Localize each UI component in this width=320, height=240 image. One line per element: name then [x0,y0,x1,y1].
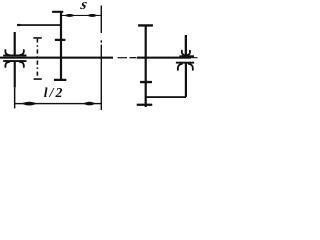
right bearing bottom stem (down to lower shaft) [185,63,187,97]
svg-text:l/2: l/2 [44,85,65,100]
svg-text:s: s [78,0,89,13]
phantom gear dash-dot stem [37,39,39,76]
left bearing top stem [14,32,16,56]
left bearing bottom bar [3,60,26,62]
left bearing bottom hooks [5,62,24,67]
dimension s: left arrowhead [64,14,75,17]
extension line from left bearing down to dimension [14,87,16,108]
gear z2 stem (vertical line at x=145.6) [145,25,147,107]
shaft I (main horizontal shaft, solid left portion) [0,57,113,59]
gear z2 mesh bar [140,81,152,83]
dimension l/2: left arrowhead [22,102,37,106]
gear z1 top rim bar [52,11,63,13]
gear z1 stem (vertical line of meshing gear pair at x=61) [60,12,62,81]
phantom gear (alternate position, dash-dot) top bar [33,37,42,39]
right bearing top hooks [182,51,190,56]
gear z1 bottom rim bar [54,79,67,81]
upper shaft II (line from left bearing area to gear z1) [17,24,61,26]
left bearing bottom stem [14,62,16,88]
axis center line (dash-dot vertical at x=101) [101,6,102,34]
phantom gear bottom bar [34,78,42,80]
right bearing top stem [185,35,187,56]
shaft I right thin end [191,57,198,58]
shaft I right portion (solid through gear z2 and bearing) [137,57,191,59]
dimension l/2: dimension line [15,103,101,104]
dimension l/2: right arrowhead [83,102,95,106]
left bearing top hooks [5,50,24,55]
gear z2 bottom rim bar [137,104,153,106]
left bearing top bar [3,55,26,57]
dimension s: right arrowhead [87,14,98,17]
right bearing bottom bar [176,62,194,64]
lower shaft III (horizontal line to right bearing stem) [146,96,187,98]
center line of main shaft (dash segments right of x=113) [118,57,128,58]
gear z2 top rim bar [138,24,153,26]
dimension s: dimension line [62,15,101,16]
right bearing top bar [179,55,194,57]
gear z1 mesh bar (pitch point bar) [55,39,66,41]
right bearing bottom hooks [178,64,193,70]
